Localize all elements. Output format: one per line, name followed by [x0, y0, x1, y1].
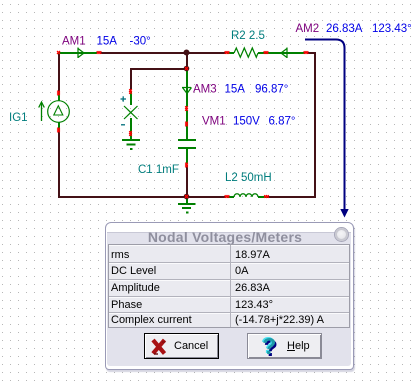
svg-text:AM1: AM1 — [62, 36, 86, 48]
svg-text:26.83A: 26.83A — [326, 23, 363, 35]
svg-text:IG1: IG1 — [9, 112, 28, 124]
svg-text:VM1: VM1 — [202, 116, 226, 128]
svg-text:AM3: AM3 — [193, 84, 217, 96]
svg-text:123.43°: 123.43° — [372, 23, 412, 35]
svg-text:-30°: -30° — [130, 36, 151, 48]
svg-text:?: ? — [262, 334, 276, 359]
svg-text:L2 50mH: L2 50mH — [225, 172, 272, 184]
svg-text:AM2: AM2 — [296, 23, 320, 35]
svg-text:15A: 15A — [225, 84, 246, 96]
svg-text:96.87°: 96.87° — [255, 84, 288, 96]
svg-text:C1 1mF: C1 1mF — [138, 164, 179, 176]
svg-text:15A: 15A — [97, 36, 118, 48]
svg-text:R2 2.5: R2 2.5 — [231, 30, 265, 42]
svg-text:6.87°: 6.87° — [269, 116, 296, 128]
svg-text:150V: 150V — [233, 116, 260, 128]
